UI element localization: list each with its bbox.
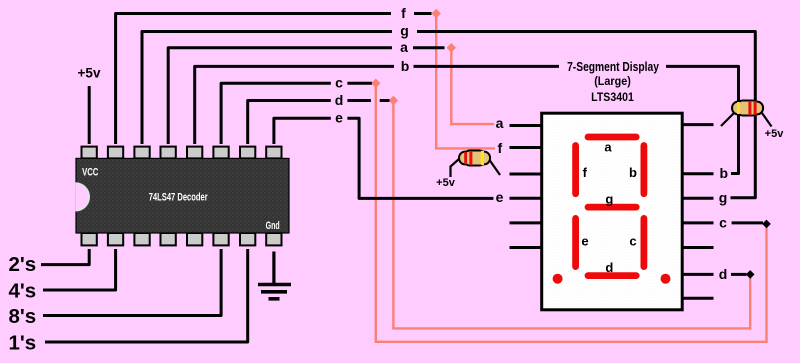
wire IC pin 16 to ground: [272, 252, 275, 286]
resistor R2 body: [732, 100, 763, 115]
svg-text:(Large): (Large): [594, 75, 631, 88]
svg-text:VCC: VCC: [82, 166, 98, 179]
node on wire d (salmon diamond): [389, 96, 398, 105]
svg-text:Gnd: Gnd: [266, 219, 280, 231]
resistor R2 leg right: [762, 113, 772, 127]
svg-text:7-Segment Display: 7-Segment Display: [567, 60, 659, 74]
display left pin 5: [510, 221, 542, 224]
wire 2's to IC pin 9: [41, 249, 89, 265]
IC 74LS47 top pins: [82, 147, 282, 159]
segment d: [588, 272, 636, 279]
svg-text:a: a: [496, 115, 504, 131]
resistor R1 leg right: [490, 160, 501, 175]
display right pin d: [683, 273, 714, 276]
IC U1 74LS47 body: [76, 158, 289, 233]
svg-text:f: f: [497, 140, 502, 156]
svg-text:74LS47 Decoder: 74LS47 Decoder: [149, 191, 208, 204]
wire d from IC pin 7: [248, 101, 331, 145]
svg-text:g: g: [400, 23, 409, 39]
svg-text:1's: 1's: [9, 331, 37, 354]
wire e from IC pin 8: [274, 118, 331, 144]
wire g to display right side: [417, 32, 755, 198]
wire f from IC pin 2: [116, 14, 391, 145]
svg-text:b: b: [629, 165, 637, 180]
segment g: [588, 204, 636, 211]
IC notch: [75, 183, 89, 210]
node on wire c (salmon diamond): [371, 79, 380, 88]
svg-text:c: c: [335, 75, 343, 91]
svg-text:e: e: [335, 109, 343, 125]
net d (salmon wire from node on d line around bottom to display pin d): [393, 101, 750, 329]
display left pin f: [510, 146, 542, 149]
svg-text:b: b: [401, 58, 410, 74]
svg-text:g: g: [605, 191, 613, 206]
node c (black diamond): [762, 220, 771, 229]
display left pin 3: [510, 173, 542, 176]
svg-text:b: b: [720, 165, 729, 181]
wire g from IC pin 3: [142, 32, 392, 145]
wire c label to node: [732, 221, 763, 224]
wire b label to title: [414, 65, 560, 68]
svg-text:2's: 2's: [9, 253, 37, 276]
segment a: [588, 134, 636, 141]
svg-text:8's: 8's: [9, 305, 37, 328]
svg-text:LTS3401: LTS3401: [591, 92, 634, 105]
7-segment display body LTS3401: [542, 113, 683, 310]
display right pin b: [683, 172, 714, 175]
display left pin a: [510, 124, 542, 127]
display left pin e: [510, 197, 542, 200]
wire c label to node: [347, 82, 372, 85]
segment b: [641, 146, 648, 194]
wire 1's to IC pin 15: [45, 249, 248, 342]
resistor R1 leg left: [451, 159, 460, 177]
resistor R1 body: [459, 150, 490, 165]
display right pin 1: [683, 123, 714, 126]
svg-text:d: d: [335, 92, 344, 108]
wire d label to node: [731, 273, 747, 276]
net a (salmon wire from node on a line to display pin a): [451, 48, 494, 124]
svg-text:a: a: [604, 139, 612, 154]
display right pin 7: [683, 297, 714, 300]
svg-text:c: c: [629, 233, 636, 248]
wire c from IC pin 6: [221, 83, 331, 144]
display left pin 6: [510, 246, 542, 249]
svg-text:g: g: [719, 190, 728, 206]
display right pin c: [683, 221, 714, 224]
svg-text:a: a: [400, 39, 408, 55]
wire b title to display right side: [666, 66, 739, 173]
IC 74LS47 bottom pins: [82, 233, 282, 245]
ground: [258, 285, 291, 299]
wire d label to node (gap where salmon wire c crosses): [347, 99, 371, 102]
segment c: [641, 218, 648, 266]
segment e: [572, 218, 579, 266]
resistor R2 leg left: [721, 113, 734, 126]
node on wire f (salmon diamond): [432, 9, 441, 18]
svg-text:c: c: [719, 214, 727, 230]
wire +5v to IC pin 1: [88, 86, 91, 144]
svg-text:e: e: [581, 233, 588, 248]
svg-text:d: d: [719, 266, 728, 282]
segment f: [572, 146, 579, 194]
svg-text:+5v: +5v: [436, 177, 456, 189]
net c (salmon wire from node on c line around bottom to display pin c): [376, 83, 767, 342]
wire e label to display pin e: [347, 118, 493, 198]
wire a from IC pin 4: [168, 48, 392, 144]
net f (salmon wire from node on f line to display pin f): [436, 14, 495, 149]
node d (black diamond): [746, 270, 755, 279]
display right pin 5: [683, 246, 714, 249]
svg-text:f: f: [401, 5, 406, 21]
svg-text:+5v: +5v: [78, 66, 101, 81]
decimal point left: [553, 274, 563, 284]
display right pin g: [683, 197, 714, 200]
svg-text:4's: 4's: [9, 280, 37, 303]
svg-text:f: f: [583, 165, 588, 180]
decimal point right: [661, 274, 671, 284]
wire 8's to IC pin 14: [43, 249, 221, 316]
node on wire a (salmon diamond): [447, 43, 456, 52]
wire f label to node: [414, 12, 432, 15]
wire b from IC pin 5: [195, 66, 394, 144]
svg-text:d: d: [605, 260, 613, 275]
wire 4's to IC pin 10: [43, 249, 116, 290]
svg-text:e: e: [496, 189, 504, 205]
wire a label to node: [413, 46, 445, 49]
svg-text:+5v: +5v: [765, 128, 785, 140]
